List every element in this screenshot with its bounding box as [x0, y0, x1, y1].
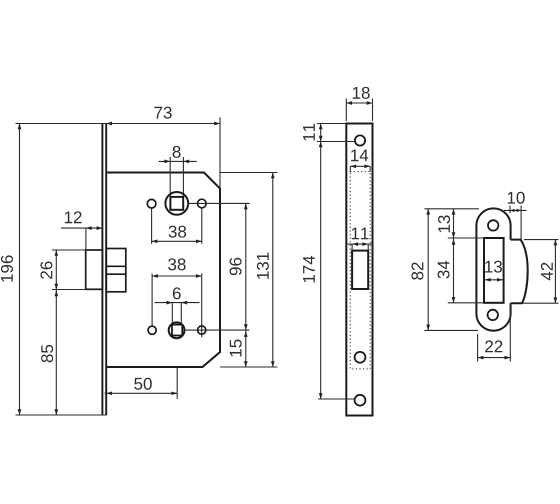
latch window front	[352, 251, 368, 289]
dimension 11 top	[317, 123, 346, 125]
extension lip top right	[524, 239, 559, 241]
screw hole top	[355, 135, 365, 145]
lock body outline	[106, 173, 220, 368]
extension bottom plate (82)	[424, 329, 478, 331]
lower spindle square hole	[172, 325, 182, 336]
label 34	[438, 261, 450, 279]
upper small hole right	[198, 199, 207, 208]
upper spindle circle	[165, 192, 188, 215]
dimension 15	[245, 330, 247, 367]
dimension 8	[159, 160, 197, 162]
label 10	[508, 192, 525, 204]
label 13	[485, 261, 502, 273]
screw hole bottom	[355, 395, 366, 406]
label 85	[41, 345, 53, 362]
label 196	[1, 255, 13, 281]
label 12	[65, 211, 82, 223]
label 6	[173, 287, 181, 299]
faceplate side view (double vertical line)	[101, 124, 103, 416]
extension line body top right	[220, 172, 278, 174]
label 18	[353, 87, 370, 99]
dimension 38 lower	[151, 274, 153, 326]
dimension value labels (digit glyph paths)	[1, 87, 553, 390]
latch bolt protruding	[86, 250, 103, 289]
strike lip	[511, 240, 528, 304]
label 26	[40, 261, 52, 278]
dimension 18	[345, 99, 347, 122]
extension line body bottom right	[220, 366, 278, 368]
lower small hole left	[148, 326, 156, 334]
upper spindle square hole	[170, 197, 183, 210]
label 8	[173, 146, 181, 158]
extension top plate (82/13)	[424, 208, 479, 210]
label 38	[168, 258, 186, 270]
extension line: bottom datum	[16, 414, 107, 416]
faceplate front outline	[346, 124, 372, 416]
strike screw hole top	[488, 220, 498, 230]
dimension 73	[106, 123, 220, 125]
extension line latch bottom	[52, 289, 86, 291]
dimension 10	[509, 206, 511, 214]
latch block inside body	[106, 249, 126, 292]
dimension 22	[477, 334, 479, 362]
dimension 50	[105, 392, 178, 394]
dimension 14	[349, 166, 351, 171]
upper small hole left	[147, 199, 156, 208]
extension through lower right hole to 96/15	[185, 329, 250, 331]
label 13	[438, 215, 450, 232]
label 11	[352, 228, 369, 240]
label 73	[154, 107, 171, 119]
screw hole middle	[355, 352, 366, 363]
dimension 82	[427, 209, 429, 331]
strike window	[484, 238, 504, 303]
label 14	[351, 150, 368, 162]
lower spindle circle	[169, 322, 185, 338]
extension line: top datum (196 / 73)	[16, 123, 107, 125]
dimension 12	[61, 227, 102, 229]
dimension 6	[155, 302, 200, 304]
dimension 13 left	[453, 209, 455, 238]
extension from upper circle to 96	[188, 202, 249, 204]
dimension 38 upper	[151, 208, 153, 244]
extension line latch top	[52, 249, 86, 251]
dimension 42	[554, 240, 556, 304]
label 22	[485, 340, 502, 352]
strike screw hole bottom	[488, 310, 498, 320]
dimension 34	[453, 238, 455, 303]
strike plate outline (stadium with gap at lip)	[476, 208, 510, 330]
extension window bottom left	[448, 302, 484, 304]
lower small hole right	[198, 326, 206, 334]
label 131	[257, 253, 269, 279]
dimension 131	[272, 173, 274, 368]
label 15	[230, 340, 242, 357]
label 50	[134, 378, 152, 390]
label 38	[169, 226, 187, 238]
dimension 85	[55, 290, 57, 416]
dimension 174	[320, 142, 322, 400]
extension window top left	[448, 237, 484, 239]
dimension 26	[55, 250, 57, 290]
dashed cutout	[350, 172, 370, 369]
dimension 13 window	[485, 279, 504, 281]
label 42	[541, 263, 553, 281]
label 174	[303, 256, 315, 283]
dimension 196	[19, 124, 21, 416]
label 96	[230, 258, 242, 275]
label 11	[303, 124, 315, 141]
dimension 11 window	[347, 243, 373, 245]
dimension 96	[245, 203, 247, 330]
label 82	[411, 262, 423, 279]
extension lip bottom right	[523, 302, 559, 304]
